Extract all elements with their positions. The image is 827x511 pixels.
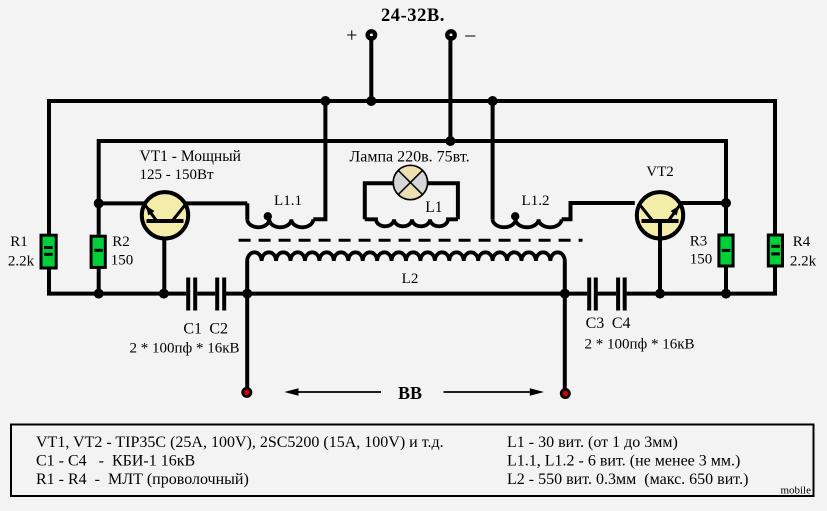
svg-text:C2: C2 (209, 321, 228, 338)
wire bottom bus right corner segment (627, 268, 775, 294)
node L1.2 top bus junction (488, 96, 498, 106)
svg-text:2.2k: 2.2k (790, 254, 817, 270)
svg-text:L1: L1 (425, 199, 442, 216)
wire mid bus with R2 and R3 columns (99, 141, 726, 235)
svg-text:L1.1: L1.1 (274, 193, 302, 209)
plus terminal (346, 25, 377, 47)
svg-text:L1.2: L1.2 (522, 193, 550, 209)
HV terminal left (241, 387, 252, 398)
svg-text:C1: C1 (183, 321, 202, 338)
transistor VT1 (140, 148, 241, 239)
svg-text:L2: L2 (402, 271, 419, 287)
BB right arrow (444, 388, 545, 396)
svg-text:ВВ: ВВ (398, 383, 422, 403)
svg-text:2.2k: 2.2k (8, 254, 35, 270)
wire VT1 collector to L1.1 (186, 201, 248, 205)
svg-text:C1 - C4 - КБИ-1 16кВ: C1 - C4 - КБИ-1 16кВ (36, 453, 195, 470)
HV terminal right (560, 388, 571, 399)
wire lamp right (427, 183, 458, 219)
inductor L1.2 (493, 101, 635, 227)
node VT1 base bottom junction (159, 289, 169, 299)
svg-text:R2: R2 (112, 234, 130, 250)
node L1.1 phase dot (264, 212, 272, 220)
node plus bus junction (366, 96, 376, 106)
node R2 bottom junction (94, 289, 104, 299)
capacitor C4 (618, 278, 625, 311)
transistor VT2 (637, 164, 683, 239)
inductor L1.1 (247, 101, 325, 227)
wire bottom bus middle segment (226, 292, 587, 296)
dashed core line (239, 239, 583, 242)
wire minus terminal to mid bus (448, 36, 452, 141)
wire R3 column lower (724, 266, 728, 294)
lamp (393, 165, 427, 200)
wire VT2 collector to R3 junction (679, 201, 727, 205)
capacitor C3 (589, 278, 596, 311)
inductor L1 (365, 199, 458, 226)
wire VT1 emitter (99, 201, 145, 205)
wire bottom bus left corner segment (49, 270, 186, 294)
node VT2 base bottom junction (655, 289, 665, 299)
wire L2 left end to HV terminal (245, 261, 249, 392)
node L2 right bottom junction (560, 289, 570, 299)
svg-text:R3: R3 (690, 234, 708, 250)
node L2 left bottom junction (242, 289, 252, 299)
capacitor C2 (217, 278, 224, 311)
svg-text:L1.1, L1.2 - 6 вит. (не менее: L1.1, L1.2 - 6 вит. (не менее 3 мм.) (507, 453, 740, 470)
svg-text:C4: C4 (612, 315, 631, 332)
svg-text:2 * 100пф * 16кВ: 2 * 100пф * 16кВ (129, 341, 239, 357)
svg-text:+: + (346, 25, 357, 47)
svg-text:mobile: mobile (780, 485, 811, 497)
wire bottom bus between C3 and C4 (598, 292, 617, 296)
svg-text:C3: C3 (586, 315, 605, 332)
wire VT2 base lead (658, 221, 662, 294)
node L1.1 top bus junction (320, 96, 330, 106)
capacitor C1 (188, 278, 195, 311)
minus terminal (445, 24, 476, 46)
BB left arrow (284, 388, 381, 396)
wire lamp left (365, 183, 394, 219)
node minus mid bus junction (445, 136, 455, 146)
wire top bus with outer verticals (49, 101, 775, 234)
svg-text:125 - 150Вт: 125 - 150Вт (140, 167, 215, 183)
wire VT1 base lead (162, 221, 166, 294)
wire bottom bus between C1 and C2 (197, 292, 215, 296)
svg-text:L1 - 30 вит. (от 1 до 3мм): L1 - 30 вит. (от 1 до 3мм) (507, 434, 678, 451)
svg-text:VT1, VT2 - TIP35C (25А, 100V),: VT1, VT2 - TIP35C (25А, 100V), 2SC5200 (… (36, 434, 444, 451)
resistor R3 (690, 234, 733, 268)
node VT2 collector junction (721, 198, 731, 208)
svg-text:–: – (464, 24, 476, 46)
legend box (11, 425, 814, 497)
resistor R1 (8, 234, 56, 270)
resistor R4 (768, 234, 816, 270)
svg-text:L2 - 550 вит. 0.3мм (макс. 65: L2 - 550 вит. 0.3мм (макс. 650 вит.) (507, 471, 748, 488)
wire L2 right end to HV terminal (563, 261, 567, 394)
node R2 emitter junction (94, 198, 104, 208)
inductor L2 (247, 252, 565, 287)
svg-text:Лампа 220в. 75вт.: Лампа 220в. 75вт. (349, 148, 469, 165)
svg-text:150: 150 (690, 252, 713, 268)
svg-text:VT2: VT2 (646, 164, 674, 180)
svg-text:R1 - R4 - МЛТ (проволочный): R1 - R4 - МЛТ (проволочный) (36, 471, 249, 488)
resistor R2 (91, 234, 133, 269)
wire R2 column lower (97, 268, 101, 294)
svg-text:R1: R1 (10, 234, 28, 250)
wire plus terminal to top bus (369, 36, 373, 101)
node R3 bottom junction (721, 289, 731, 299)
svg-text:24-32В.: 24-32В. (381, 6, 445, 26)
svg-text:2 * 100пф * 16кВ: 2 * 100пф * 16кВ (584, 337, 694, 353)
wire R3 column mid (724, 203, 728, 235)
node L1.2 phase dot (511, 212, 519, 220)
svg-text:150: 150 (111, 253, 134, 269)
svg-text:VT1 - Мощный: VT1 - Мощный (140, 148, 241, 165)
svg-text:R4: R4 (793, 234, 811, 250)
